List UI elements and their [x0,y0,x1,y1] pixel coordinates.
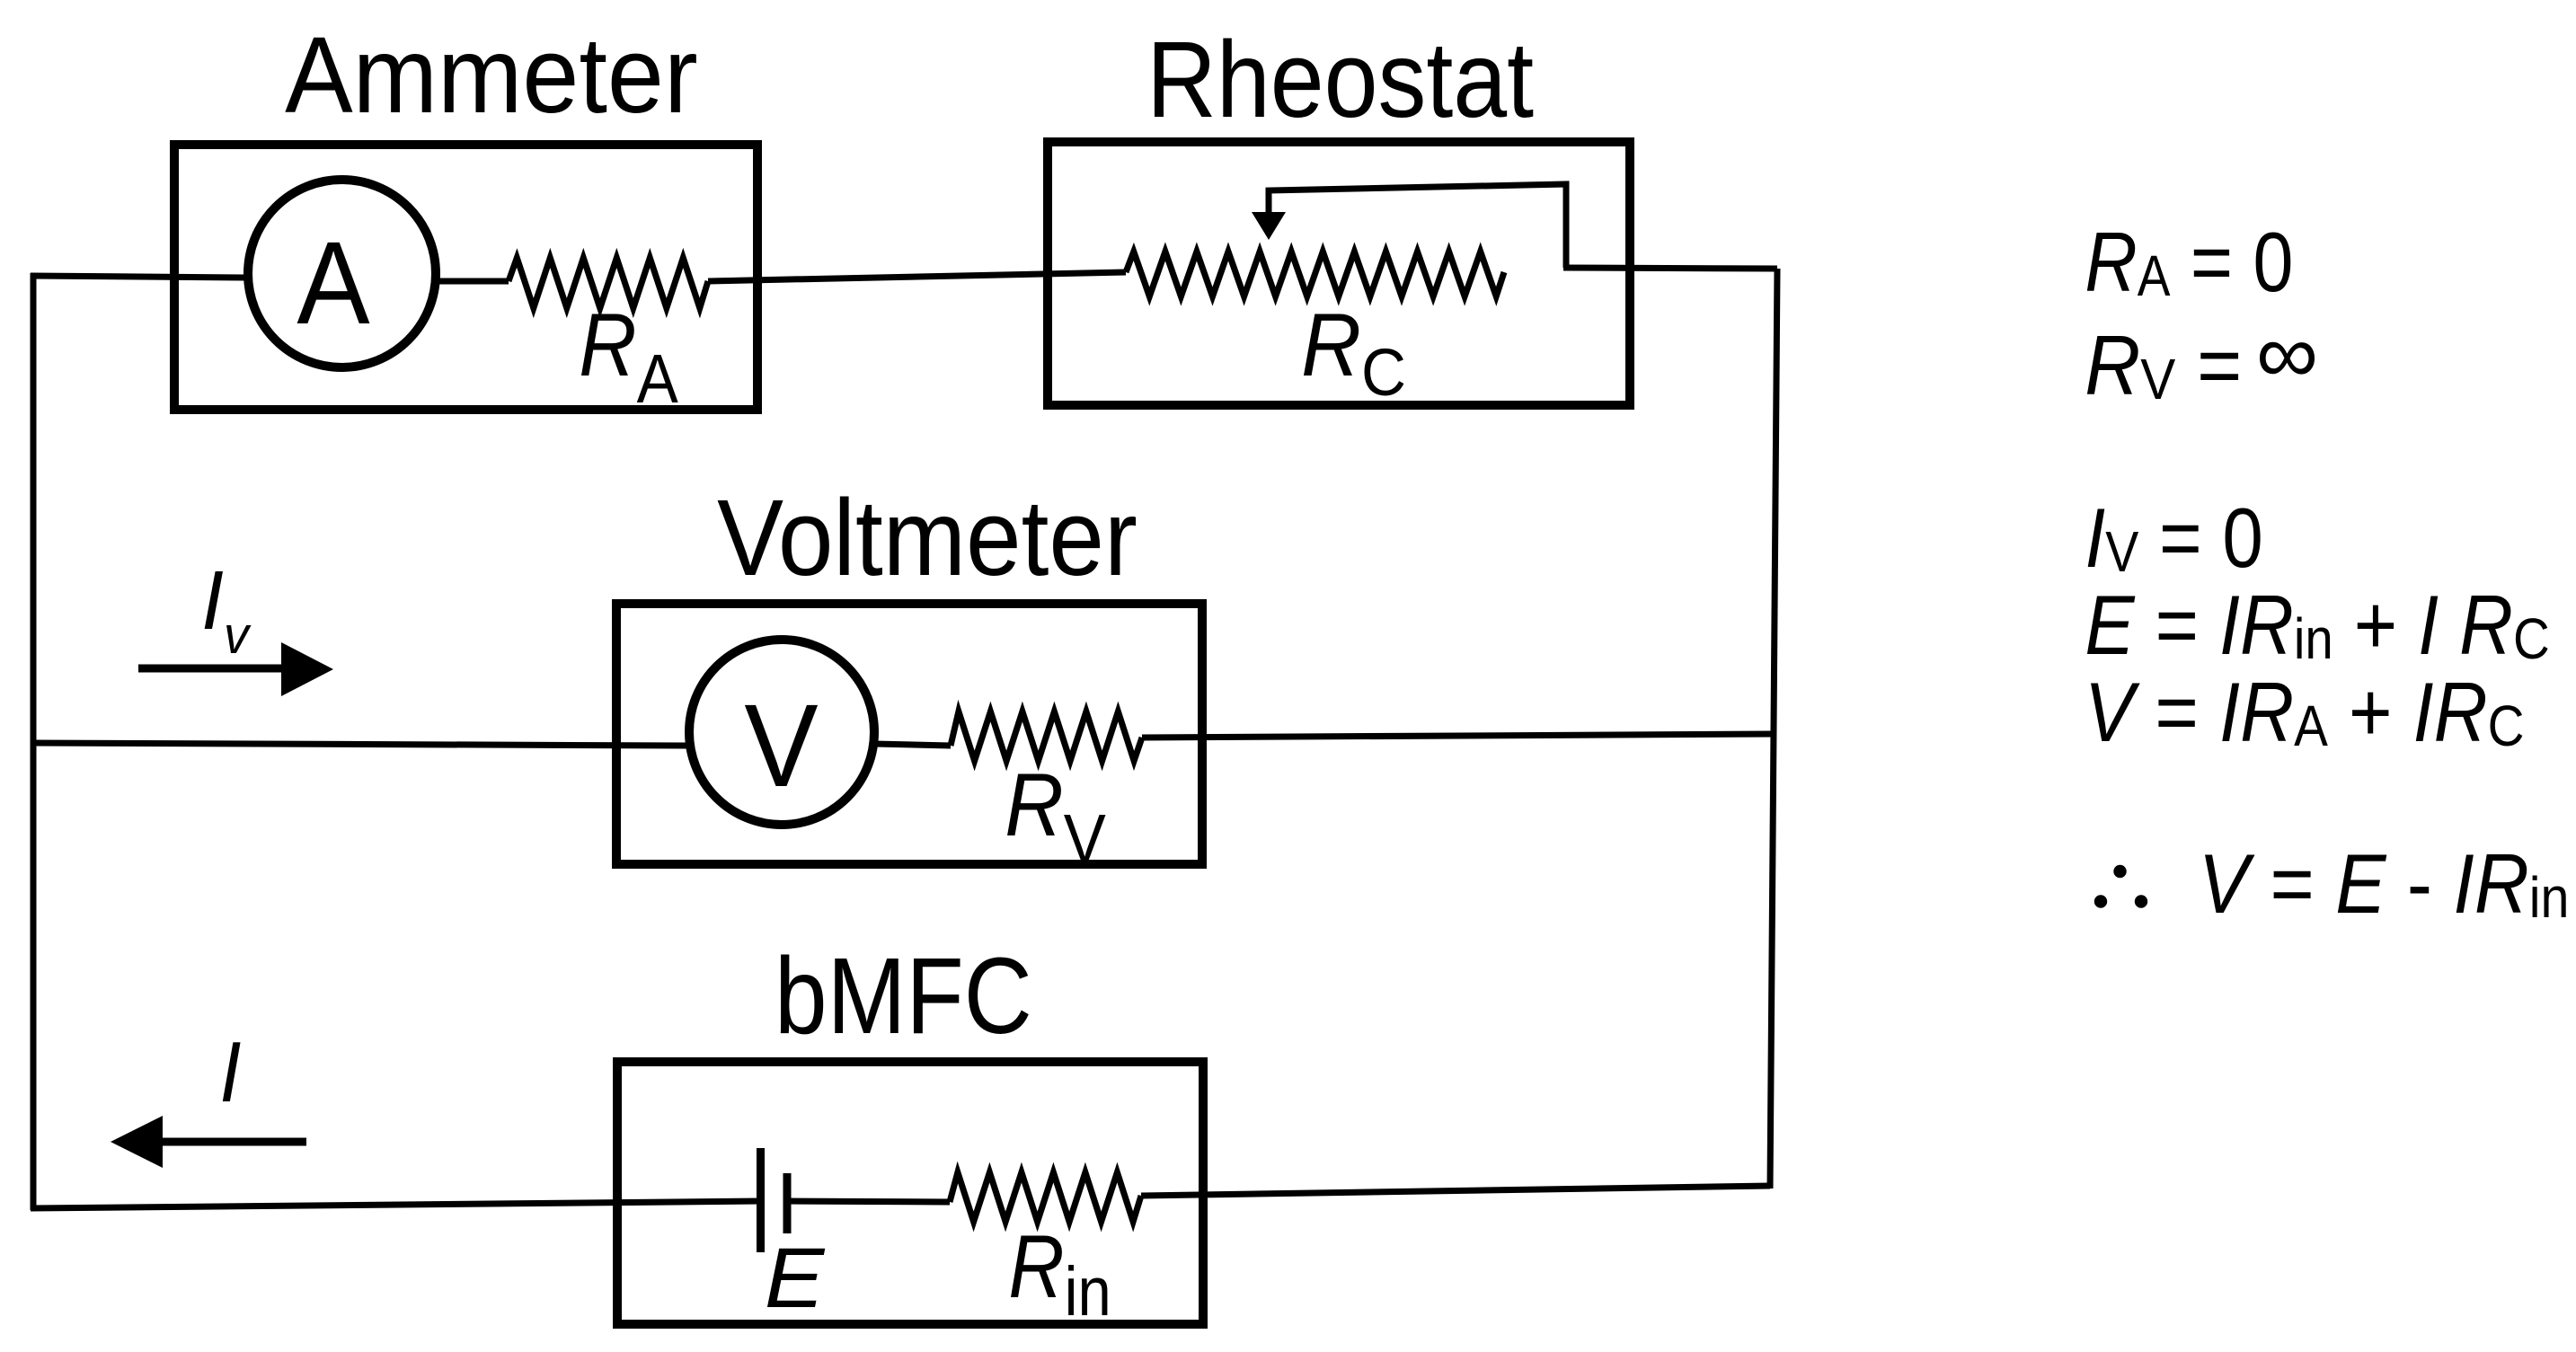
wire: right rail [1770,269,1777,1189]
svg-text:A: A [297,216,370,349]
svg-text:V = E - IRin: V = E - IRin [2199,836,2570,931]
svg-text:Iv: Iv [201,553,252,665]
wire: rheostat wiper tap to right rail corner [1563,268,1777,269]
svg-text:∞: ∞ [2256,306,2318,401]
wire: RV to right rail [1142,734,1775,738]
svg-text:RV =: RV = [2085,318,2242,412]
resistor Rin zigzag [950,1172,1141,1222]
bMFC box [617,1062,1203,1324]
wire: battery to resistor Rin [787,1201,950,1202]
wire: RA to rheostat box [708,272,1126,281]
rheostat wiper bracket wire [1269,184,1566,268]
wire: voltmeter run from left rail to circle [31,743,690,746]
svg-text:Ammeter: Ammeter [285,14,698,136]
resistor RA zigzag [509,258,708,308]
ammeter meter circle [248,180,436,367]
current I arrow shaft [158,1138,306,1146]
svg-text:V: V [744,680,818,811]
svg-text:bMFC: bMFC [775,935,1032,1056]
wire: top run from left rail to ammeter circle [31,276,246,278]
ammeter box [174,145,757,410]
wire: ammeter circle to resistor RA [436,278,509,285]
svg-text:E: E [765,1230,826,1325]
svg-text:RV: RV [1005,756,1106,877]
wire: voltmeter circle to resistor RV [874,744,951,746]
voltmeter box [616,604,1202,864]
rheostat wiper arrowhead [1252,212,1286,240]
svg-text:E = IRin + I RC: E = IRin + I RC [2085,578,2549,672]
svg-text:I: I [219,1024,241,1120]
resistor RC zigzag (rheostat track) [1126,252,1504,296]
current Iv arrow shaft [138,665,288,673]
therefore symbol dots [2094,865,2147,908]
battery E long plate [757,1148,765,1252]
wire: left rail [31,273,37,1210]
current I arrowhead [111,1116,163,1168]
svg-text:IV = 0: IV = 0 [2085,490,2263,586]
svg-text:Rin: Rin [1008,1216,1111,1330]
resistor RV zigzag [951,711,1142,761]
wire: bottom run from left rail to battery [31,1201,760,1208]
rheostat box [1048,142,1630,405]
svg-text:V = IRA + IRC: V = IRA + IRC [2085,665,2525,759]
svg-text:RA = 0: RA = 0 [2085,215,2293,309]
battery E short plate [783,1173,792,1233]
wire: Rin to right rail [1141,1186,1770,1196]
svg-text:Rheostat: Rheostat [1146,19,1534,140]
svg-text:RC: RC [1301,296,1406,410]
svg-text:RA: RA [579,296,678,418]
voltmeter meter circle [689,640,874,825]
svg-text:Voltmeter: Voltmeter [717,476,1138,598]
current Iv arrowhead [281,642,333,696]
